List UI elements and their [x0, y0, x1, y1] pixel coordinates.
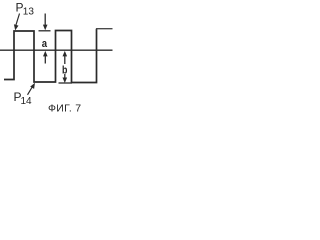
node a top extension line: [39, 30, 51, 32]
node a bottom arrow: [43, 51, 48, 64]
background: [0, 0, 115, 120]
svg-text:13: 13: [23, 7, 35, 18]
wire P13 leader arrow: [14, 14, 20, 31]
node a top arrow: [43, 14, 48, 31]
node b bottom arrow: [63, 74, 68, 83]
node b top arrow: [63, 51, 68, 64]
svg-text:ФИГ. 7: ФИГ. 7: [48, 102, 81, 114]
wire P14 leader arrow: [28, 83, 36, 95]
node axis (zero line): [0, 49, 113, 51]
node label P14: [14, 90, 33, 107]
node b bottom extension line: [59, 82, 73, 84]
wire third pulse top: [96, 28, 113, 30]
node label P13: [16, 0, 35, 17]
wire square-wave P13/P14 waveform: [4, 29, 97, 83]
svg-text:a: a: [42, 38, 48, 50]
svg-text:14: 14: [21, 96, 33, 107]
